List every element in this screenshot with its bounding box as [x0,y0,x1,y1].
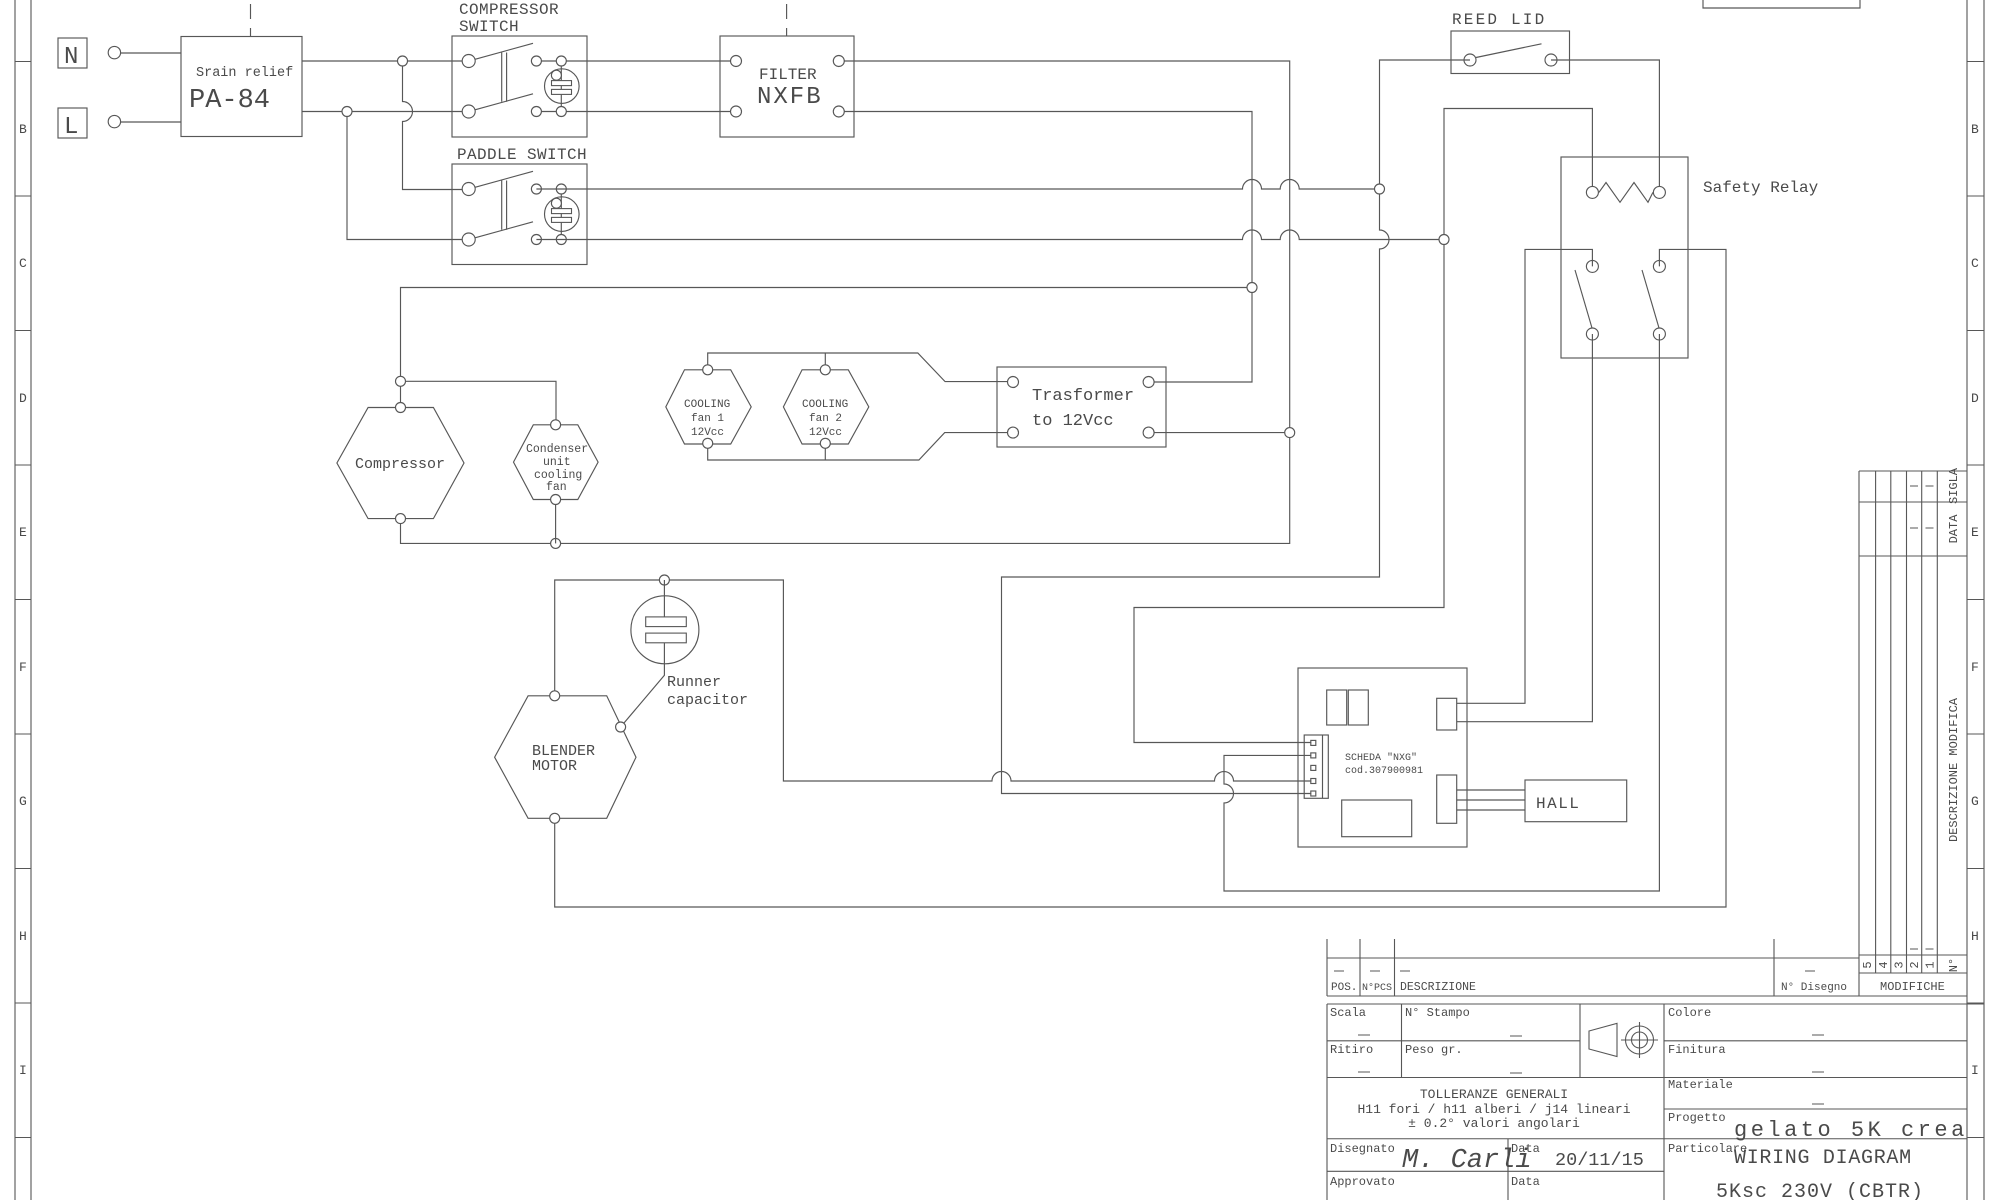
title block POS header table [1327,939,1967,996]
svg-text:MOTOR: MOTOR [532,758,577,775]
projection symbol cone [1589,1023,1617,1056]
wire filter bottom output to transformer primary top [839,112,1252,383]
terminal N box [58,38,87,71]
blender motor hexagon [495,691,636,824]
wire relay pole2 top to blender bottom bus [555,249,1726,907]
wire reed lid left to pin5 chain (hop over paddle L wire) [1002,60,1471,794]
svg-text:B: B [1971,122,1979,137]
svg-text:G: G [1971,794,1979,809]
svg-text:fan 2: fan 2 [809,413,842,425]
wire filter top output to N-side vertical down to compressor bottom bus [401,61,1290,543]
svg-text:NXFB: NXFB [757,84,823,111]
svg-text:I: I [1971,1063,1979,1078]
svg-text:H: H [19,929,27,944]
wires board R2 to HALL sensor [1457,790,1525,810]
cooling fans supply bus top [708,353,1013,382]
wire relay pole1 bottom to board connector R1 pin b [1457,334,1593,722]
svg-text:Finitura: Finitura [1668,1043,1726,1057]
svg-text:POS.: POS. [1331,982,1357,994]
node wire3 end on L vertical [1247,283,1257,293]
safety relay pole 2 [1642,260,1665,340]
svg-text:F: F [1971,660,1979,675]
wire condenser bottom to bus [555,500,557,544]
svg-text:SCHEDA "NXG": SCHEDA "NXG" [1345,752,1417,764]
svg-text:4: 4 [1877,961,1891,968]
dashed earth lead above strain relief [250,4,252,36]
svg-text:C: C [19,256,27,271]
svg-text:PADDLE SWITCH: PADDLE SWITCH [457,146,587,164]
svg-text:N°: N° [1947,958,1961,972]
svg-text:F: F [19,660,27,675]
wire blender top to runner capacitor node to board pin4 (two hops) [555,580,1311,781]
svg-text:MODIFICHE: MODIFICHE [1880,980,1945,994]
node runner capacitor top [659,575,669,585]
safety relay box [1561,157,1819,358]
board relay block 1 [1327,690,1347,725]
svg-text:20/11/15: 20/11/15 [1555,1150,1644,1171]
wire strain relief top output (N phase) [302,60,462,62]
svg-text:HALL: HALL [1536,795,1580,813]
title block main frame [1327,1004,1984,1200]
svg-text:Srain relief: Srain relief [196,66,293,81]
svg-text:M. Carli: M. Carli [1402,1146,1532,1176]
svg-text:± 0.2° valori angolari: ± 0.2° valori angolari [1408,1116,1580,1131]
svg-text:Condenser: Condenser [526,443,588,456]
board right connector R1 [1437,698,1457,730]
condenser unit cooling fan hexagon [514,420,599,505]
svg-text:Materiale: Materiale [1668,1078,1733,1092]
cooling fan 2 top stub [824,353,826,370]
paddle switch contacts [462,183,566,247]
terminal L box [58,108,87,141]
svg-text:12Vcc: 12Vcc [691,427,724,439]
svg-text:COOLING: COOLING [802,399,848,411]
revision table rotated headers [1861,467,1961,972]
wire relay pole1 top to board connector R1 pin a [1457,249,1593,703]
svg-text:TOLLERANZE GENERALI: TOLLERANZE GENERALI [1420,1087,1568,1102]
wire reed lid right to relay coil right [1551,60,1659,192]
POS table labels [1331,980,1945,994]
compressor switch wires to filter [536,60,736,62]
svg-text:fan: fan [546,481,567,494]
svg-text:COOLING: COOLING [684,399,730,411]
board relay block 2 [1348,690,1368,725]
svg-text:WIRING DIAGRAM: WIRING DIAGRAM [1734,1147,1912,1170]
svg-text:Progetto: Progetto [1668,1111,1726,1125]
terminal L circle [108,115,120,127]
wire transformer primary bottom to N-side vertical [1149,432,1290,434]
HALL sensor box [1525,780,1627,822]
paddle switch box [452,146,587,265]
svg-text:Data: Data [1511,1175,1540,1189]
compressor switch box [452,1,587,137]
svg-text:D: D [19,391,27,406]
cooling fans supply bus bottom [708,433,1013,460]
svg-text:N° Disegno: N° Disegno [1781,982,1847,994]
board right connector R2 [1437,775,1457,823]
cooling fan 2 bottom stub [824,443,826,460]
svg-text:E: E [19,525,27,540]
paddle switch blades and link [475,171,533,238]
svg-text:DESCRIZIONE: DESCRIZIONE [1400,981,1476,994]
node B on L wire [342,107,352,117]
reed lid contacts [1464,54,1476,66]
svg-text:COMPRESSOR: COMPRESSOR [459,1,559,19]
wire paddle switch bottom output to relay coil node (hops over two verticals) [536,230,1444,239]
border row letters right [1971,122,1979,1078]
top-right partial box [1703,0,1860,8]
svg-text:Peso gr.: Peso gr. [1405,1043,1463,1057]
svg-text:Colore: Colore [1668,1006,1711,1020]
svg-text:H: H [1971,929,1979,944]
safety relay coil [1586,183,1665,203]
compressor switch blades and link [475,43,533,110]
dashed earth lead above filter [786,4,788,36]
node transformer bottom junction [1285,428,1295,438]
svg-text:Runner: Runner [667,674,721,691]
revision table dashes [1910,486,1934,949]
node A on N wire [398,56,408,66]
svg-text:5: 5 [1861,961,1875,968]
wire paddle switch top output to reed-lid node (hops over two verticals) [536,180,1379,190]
svg-text:unit: unit [543,456,571,469]
filter contacts [731,56,845,118]
svg-text:SWITCH: SWITCH [459,18,519,36]
svg-text:N°PCS: N°PCS [1362,982,1392,994]
svg-text:N: N [64,44,78,71]
node coil chain meets paddle bottom output [1439,235,1449,245]
sheet border right strip [1967,0,1984,1200]
svg-text:5Ksc 230V (CBTR): 5Ksc 230V (CBTR) [1716,1181,1924,1200]
revision table (rotated) right side [1859,471,1967,996]
svg-text:SIGLA: SIGLA [1947,467,1961,504]
svg-text:B: B [19,122,27,137]
node compressor feed T junction [396,376,406,386]
wire from node A down to paddle switch top (hop over L wire) [403,61,463,190]
svg-text:C: C [1971,256,1979,271]
svg-text:Approvato: Approvato [1330,1175,1395,1189]
wire L terminal to strain relief [121,121,181,123]
reed lid box [1451,11,1570,74]
sheet border left strip [15,0,31,1200]
svg-text:REED LID: REED LID [1452,11,1546,29]
safety relay pole 1 [1575,260,1598,340]
paddle switch lamp [545,189,580,240]
node condenser bottom junction [551,538,561,548]
board 5-pin connector J1 [1304,735,1328,798]
cooling fan 1 hexagon [666,365,751,449]
cooling fan 2 hexagon [783,365,868,449]
strain relief PA-84 box [181,37,302,137]
svg-text:L: L [64,114,78,141]
board bottom component block [1342,800,1412,837]
svg-text:E: E [1971,525,1979,540]
svg-text:12Vcc: 12Vcc [809,427,842,439]
svg-text:to 12Vcc: to 12Vcc [1032,412,1114,431]
compressor switch contacts [462,55,566,119]
wire strain relief bottom output (L phase) [302,111,462,113]
svg-text:capacitor: capacitor [667,692,748,709]
wire relay pole2 bottom to board pin2 (hop over pin5 wire) [1224,334,1659,891]
projection symbol circles [1621,1022,1658,1058]
svg-text:gelato 5K crea: gelato 5K crea [1734,1118,1968,1143]
svg-text:Safety Relay: Safety Relay [1703,179,1819,197]
svg-text:Scala: Scala [1330,1006,1366,1020]
wire relay coil left chain to board pin1 [1134,109,1592,743]
svg-text:cod.307900981: cod.307900981 [1345,765,1423,777]
compressor feed wire from L-side vertical to compressor top [401,288,1253,407]
scheda NXG board [1298,668,1467,847]
compressor switch lamp [545,61,580,112]
runner capacitor [621,580,748,727]
svg-text:1: 1 [1924,961,1938,968]
reed lid blade [1476,44,1542,58]
terminal N circle [108,46,120,58]
svg-text:N° Stampo: N° Stampo [1405,1006,1470,1020]
svg-text:G: G [19,794,27,809]
wire N terminal to strain relief [121,52,181,54]
wire from node B down to paddle switch bottom [347,112,462,240]
svg-text:2: 2 [1908,961,1922,968]
svg-text:Trasformer: Trasformer [1032,387,1134,406]
svg-text:FILTER: FILTER [759,66,817,84]
svg-text:Compressor: Compressor [355,456,445,473]
border row letters left [19,122,27,1078]
compressor hexagon [337,403,464,524]
svg-text:DATA: DATA [1947,514,1961,544]
svg-text:I: I [19,1063,27,1078]
tolleranze text [1357,1087,1630,1131]
wire branch to condenser unit cooling fan top [401,381,557,425]
transformer box [997,367,1166,447]
svg-text:D: D [1971,391,1979,406]
svg-text:Disegnato: Disegnato [1330,1142,1395,1156]
title block dashes [1358,1035,1824,1104]
svg-text:fan 1: fan 1 [691,413,724,425]
svg-text:DESCRIZIONE MODIFICA: DESCRIZIONE MODIFICA [1947,697,1961,842]
svg-text:H11 fori / h11 alberi / j14 li: H11 fori / h11 alberi / j14 lineari [1357,1102,1630,1117]
title block cell labels [1330,1006,1747,1189]
svg-text:Ritiro: Ritiro [1330,1043,1373,1057]
svg-text:PA-84: PA-84 [189,86,270,116]
svg-text:3: 3 [1893,961,1907,968]
node reed vertical meets paddle top output [1375,184,1385,194]
POS table dashes [1334,970,1815,972]
filter NXFB box [720,36,854,137]
